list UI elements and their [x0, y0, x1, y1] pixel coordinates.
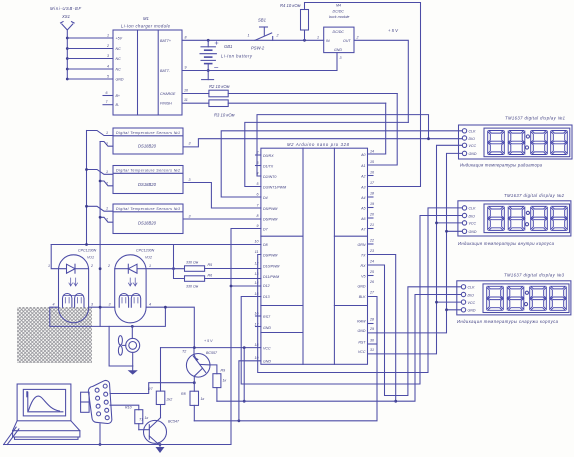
svg-text:2: 2: [256, 151, 259, 155]
svg-text:TM1637 digital display №2: TM1637 digital display №2: [504, 193, 565, 198]
wire VCC tap HG2: [437, 222, 463, 224]
pin numbers M1 left: [106, 34, 110, 105]
svg-text:1: 1: [106, 131, 108, 135]
M2 right pin numbers: [369, 150, 375, 353]
wire XS1 pin3 to M1: [67, 58, 113, 60]
wire RX to HG3 CLK: [368, 265, 462, 396]
wire DB9 to node X: [110, 383, 161, 394]
HG1 digit 2: [508, 131, 525, 155]
svg-text:3: 3: [189, 178, 191, 182]
wire bus1 tap sensor2 pin1: [87, 170, 114, 175]
ground bar battery: [202, 79, 214, 81]
svg-text:GND: GND: [358, 284, 366, 288]
svg-text:+ 5 V: + 5 V: [204, 339, 213, 343]
wire VCC tap HG3: [437, 301, 462, 303]
svg-text:CLK: CLK: [468, 286, 476, 290]
svg-text:A3: A3: [360, 185, 365, 189]
svg-text:31: 31: [370, 348, 374, 352]
svg-text:A2: A2: [360, 174, 365, 178]
svg-text:buck module: buck module: [329, 15, 349, 19]
wire +5V rail transistors: [161, 347, 262, 349]
svg-text:R6: R6: [208, 274, 213, 278]
svg-text:30: 30: [370, 339, 374, 343]
wire bus1 tap sensor3 pin1: [87, 206, 114, 211]
wire top rail R4 to A3: [305, 3, 421, 187]
svg-text:3: 3: [340, 56, 342, 60]
svg-text:A4: A4: [360, 196, 365, 200]
svg-text:11: 11: [184, 98, 188, 102]
HG2 pin circles: [462, 206, 466, 234]
svg-text:1: 1: [248, 34, 250, 38]
svg-text:3: 3: [257, 161, 259, 165]
svg-text:BC557: BC557: [206, 351, 218, 355]
switch SB1: [255, 27, 273, 40]
svg-text:5: 5: [257, 182, 259, 186]
svg-text:A0: A0: [360, 153, 365, 157]
svg-text:6: 6: [106, 91, 108, 95]
T2 labels: [182, 350, 218, 356]
svg-text:B+: B+: [116, 94, 121, 98]
pin numbers sensors: [105, 131, 191, 222]
svg-text:18: 18: [370, 192, 374, 196]
svg-text:OUT: OUT: [343, 39, 351, 43]
wire R5 to D10: [205, 268, 261, 270]
pin stubs M2 right: [368, 176, 374, 276]
svg-text:DIO: DIO: [469, 137, 476, 141]
svg-text:10: 10: [255, 240, 259, 244]
svg-text:Индикация температуры внутри к: Индикация температуры внутри корпуса: [458, 241, 555, 246]
node TX drop on R9 run: [394, 400, 397, 403]
svg-text:BATT-: BATT-: [160, 69, 171, 73]
svg-text:1: 1: [107, 34, 109, 38]
HG2 pin labels: [469, 207, 477, 234]
optocoupler VU2: [115, 255, 146, 323]
node VCC drop H4: [243, 400, 246, 403]
svg-text:GND: GND: [116, 78, 124, 82]
svg-text:29: 29: [369, 327, 374, 331]
node X junction: [193, 381, 196, 384]
wire XS1 pin5 to M1: [67, 78, 113, 80]
node VCC HG3: [435, 301, 438, 304]
svg-text:RX: RX: [361, 264, 367, 268]
svg-text:DC/DC: DC/DC: [333, 30, 345, 34]
node rail drop right: [172, 267, 175, 270]
wire XS1 bus: [66, 38, 68, 80]
wire T2 base to R9: [210, 365, 217, 374]
svg-text:VCC: VCC: [358, 350, 366, 354]
svg-text:28: 28: [369, 318, 374, 322]
svg-text:D0/RX: D0/RX: [263, 154, 274, 158]
svg-text:4: 4: [107, 65, 109, 69]
svg-text:SB1: SB1: [258, 18, 266, 23]
svg-text:GND: GND: [469, 152, 477, 156]
svg-text:2: 2: [90, 264, 93, 268]
transistor T1 BC547: [139, 415, 167, 446]
wire D3 plus5 run: [245, 122, 408, 186]
svg-text:GND: GND: [334, 48, 342, 52]
wire laptop cable: [4, 427, 19, 444]
svg-text:9: 9: [185, 66, 187, 70]
wire bottom run: [4, 444, 231, 446]
svg-text:T2: T2: [182, 350, 186, 354]
node R4 bottom junction: [303, 39, 306, 42]
HG3 colon: [524, 291, 528, 306]
display HG3 TM1637 box: [457, 281, 571, 315]
svg-text:D10/PWM: D10/PWM: [263, 265, 279, 269]
node GND left riser: [238, 419, 241, 422]
node bus2 sensor2: [99, 180, 102, 183]
svg-text:R5: R5: [208, 263, 213, 267]
svg-text:M1: M1: [143, 16, 149, 21]
svg-text:CLK: CLK: [469, 207, 477, 211]
HG2 digit 3: [531, 206, 548, 230]
laptop PC: [13, 384, 80, 439]
R9 labels: [221, 369, 227, 383]
wire H6 GND run to BLK: [194, 297, 377, 421]
svg-text:VCC: VCC: [468, 301, 476, 305]
svg-text:M2 Arduino nano pro 328: M2 Arduino nano pro 328: [287, 142, 350, 147]
node rail bus1: [85, 243, 88, 246]
svg-text:2: 2: [105, 142, 108, 146]
wire VU2 anode to rail drop: [146, 268, 184, 270]
svg-text:CPC1230N: CPC1230N: [136, 249, 155, 253]
wire R8 to GND run: [193, 405, 195, 420]
svg-text:DIO: DIO: [468, 293, 475, 297]
VU1 labels: [48, 249, 97, 307]
svg-text:1: 1: [48, 264, 50, 268]
svg-text:15: 15: [370, 160, 374, 164]
svg-text:R2 10 кОм: R2 10 кОм: [209, 84, 230, 89]
svg-text:V5: V5: [361, 274, 365, 278]
svg-text:Индикация температуры радиатор: Индикация температуры радиатора: [460, 163, 543, 168]
svg-text:NC: NC: [116, 47, 122, 51]
svg-text:1к: 1к: [223, 379, 227, 383]
svg-text:RST: RST: [358, 340, 366, 344]
svg-text:D11/PWM: D11/PWM: [263, 275, 279, 279]
svg-text:D13: D13: [263, 295, 270, 299]
svg-text:4: 4: [149, 303, 151, 307]
wire R9 run H4: [217, 400, 396, 402]
wire XS1 pin2 to M1: [67, 48, 113, 50]
resistor R5: [185, 266, 205, 272]
wire fan return: [109, 326, 133, 366]
svg-text:GRN: GRN: [358, 243, 366, 247]
svg-text:6: 6: [257, 193, 259, 197]
svg-text:TM1637 digital display №1: TM1637 digital display №1: [505, 116, 565, 121]
node DIO riser junction: [427, 137, 430, 140]
svg-text:16: 16: [370, 171, 374, 175]
svg-text:Li-Ion battery: Li-Ion battery: [221, 54, 253, 59]
svg-text:IN: IN: [326, 39, 330, 43]
svg-text:14: 14: [370, 150, 374, 154]
wire rail right drop to VU2 anode and R5 R6: [174, 245, 185, 279]
display HG2 TM1637 box: [458, 201, 571, 236]
M2 left pin numbers: [255, 151, 260, 361]
svg-text:1: 1: [106, 207, 108, 211]
svg-text:BC547: BC547: [168, 420, 180, 424]
wire VCC drop to H4: [243, 348, 245, 402]
wire T1 emitter down: [159, 446, 161, 448]
wire sensor bus 1: [86, 131, 88, 245]
node T2 emitter: [193, 346, 196, 349]
wire sensor3 data to D6: [183, 218, 261, 220]
svg-text:R4 10 кОм: R4 10 кОм: [280, 3, 301, 8]
wire bus2 tap sensor2 pin2: [100, 181, 113, 186]
HG2 colon: [525, 211, 529, 226]
svg-text:2: 2: [105, 181, 108, 185]
svg-text:NC: NC: [116, 68, 122, 72]
svg-text:11: 11: [255, 250, 259, 254]
svg-text:RST: RST: [263, 315, 271, 319]
svg-text:21: 21: [369, 223, 374, 227]
svg-text:1: 1: [149, 264, 151, 268]
wire D8 opto rail: [51, 244, 261, 246]
T1 labels: [139, 418, 180, 424]
svg-text:GND: GND: [358, 329, 366, 333]
wire display1 CLK run to D4: [221, 131, 462, 197]
resistor R8: [190, 391, 199, 405]
resistor R10: [110, 405, 143, 430]
connector XS1 Mini-USB-BF symbol: [61, 22, 75, 38]
HG1 digit 1: [488, 131, 505, 155]
sensor U3 labels: [116, 207, 180, 226]
M1 labels: [116, 16, 176, 107]
resistor R2: [182, 90, 397, 97]
sensor U2 DS18B20 box: [113, 166, 183, 194]
wire D13 to HG2 DIO nested: [241, 216, 462, 385]
svg-text:A1: A1: [360, 164, 365, 168]
wire riser display1 DIO upper run: [257, 115, 429, 176]
svg-text:9: 9: [257, 224, 259, 228]
pin stub RST right: [368, 343, 377, 345]
svg-text:Digital Temperature Sensors №1: Digital Temperature Sensors №1: [116, 131, 180, 135]
HG3 digit 4: [550, 286, 567, 310]
sensor U2 labels: [116, 168, 180, 187]
wire bus2 tap sensor3 pin2: [100, 217, 113, 222]
HG1 pin circles: [462, 129, 466, 156]
HG3 pin labels: [468, 286, 476, 313]
svg-text:DS18B20: DS18B20: [138, 182, 157, 187]
wire GND tap HG2: [447, 230, 463, 232]
svg-text:Li-Ion charger module: Li-Ion charger module: [121, 24, 171, 29]
wire D9 to HG2 CLK: [258, 208, 463, 373]
svg-text:RAW: RAW: [357, 320, 366, 324]
HG1 colon: [525, 135, 529, 149]
heatsink hatched block: [17, 307, 92, 363]
wire VU1 out left L: [50, 307, 166, 326]
HG1 digit 4: [551, 131, 568, 155]
svg-text:23: 23: [369, 249, 374, 253]
svg-text:+5V: +5V: [116, 37, 123, 41]
HG3 digit 2: [507, 286, 524, 310]
resistor R4: [301, 3, 309, 41]
node fan tap: [131, 325, 134, 328]
node battery minus junction: [207, 69, 210, 72]
R8 labels: [181, 392, 204, 401]
wire VU2 out right to T2 emitter: [146, 307, 194, 347]
display HG1 TM1637 box: [459, 125, 573, 159]
wire TX to HG3 DIO: [368, 255, 462, 402]
wire M4 OUT +5V: [354, 40, 408, 122]
svg-text:1: 1: [317, 36, 319, 40]
node VU2 out riser: [164, 306, 167, 309]
svg-text:25: 25: [369, 270, 374, 274]
wire GND left pin: [239, 361, 261, 421]
svg-text:CPC1230N: CPC1230N: [78, 249, 97, 253]
wire BATT- net: [182, 70, 337, 72]
svg-text:GB1: GB1: [224, 44, 232, 49]
svg-text:TM1637 digital display №3: TM1637 digital display №3: [504, 273, 565, 278]
HG3 digit 3: [530, 286, 547, 310]
M4 labels: [317, 4, 359, 61]
svg-text:20: 20: [369, 213, 374, 217]
wire GND tap HG3: [447, 309, 462, 311]
optocoupler VU1: [59, 255, 89, 323]
wire XS1 pin4 to M1: [67, 68, 113, 70]
wire R2 to A1 riser: [368, 94, 398, 166]
svg-text:D5/PWM: D5/PWM: [263, 207, 277, 211]
wire R3 to A0 riser: [368, 103, 386, 154]
svg-text:GND: GND: [263, 359, 271, 363]
svg-text:8: 8: [257, 214, 259, 218]
module M1 Li-Ion charger box: [113, 30, 182, 115]
svg-text:PSW-2: PSW-2: [251, 46, 265, 51]
svg-text:+ 5 V: + 5 V: [388, 28, 399, 33]
svg-text:R8: R8: [181, 392, 186, 396]
svg-text:A6: A6: [360, 217, 365, 221]
M2 left pin labels: [263, 154, 286, 363]
svg-text:19: 19: [370, 202, 374, 206]
wire XS1 pin1 to M1: [67, 37, 113, 39]
resistor R9: [213, 374, 221, 388]
ground fan: [128, 366, 138, 375]
resistor R7: [156, 383, 165, 415]
VU2 labels: [107, 249, 155, 307]
wire D7 serial down: [231, 229, 261, 445]
svg-text:DIO: DIO: [469, 214, 476, 218]
wire M4 GND pin3: [336, 53, 338, 71]
svg-text:VCC: VCC: [469, 222, 477, 226]
svg-text:D2/INT0: D2/INT0: [263, 175, 276, 179]
wire VU1 out to VU2 out: [89, 306, 115, 308]
pin stubs M2 left: [256, 155, 261, 327]
svg-text:DS18B20: DS18B20: [138, 144, 157, 149]
HG2 digit 1: [488, 206, 505, 230]
svg-text:4: 4: [53, 303, 55, 307]
connector XP1 DB9: [88, 380, 111, 423]
R7 labels: [148, 387, 172, 402]
svg-text:4: 4: [257, 172, 259, 176]
XS1 label: [50, 6, 81, 19]
svg-text:BLK: BLK: [359, 295, 366, 299]
svg-text:D6/PWM: D6/PWM: [263, 218, 277, 222]
HG2 digit 2: [508, 206, 525, 230]
R5 labels: [186, 261, 212, 268]
HG1 pin labels: [469, 130, 477, 157]
svg-text:VCC: VCC: [263, 346, 271, 350]
wire BATT+ net: [182, 39, 324, 41]
resistor R3: [182, 100, 386, 107]
svg-text:3: 3: [189, 142, 191, 146]
svg-text:DS18B20: DS18B20: [138, 221, 157, 226]
node battery plus junction: [207, 39, 210, 42]
node cathode bus: [99, 267, 102, 270]
wire sensor1 data to D2 and display1 DIO: [183, 139, 462, 147]
battery GB1: [200, 40, 218, 79]
svg-text:26: 26: [369, 280, 374, 284]
node T1 emitter run: [159, 443, 162, 446]
HG3 pin circles: [461, 285, 465, 312]
HG1 digit 3: [531, 131, 548, 155]
wire bus1 tap sensor1 pin1: [87, 131, 114, 136]
IC M2 Arduino nano pro 328 box: [261, 148, 368, 364]
svg-text:A5: A5: [360, 206, 365, 210]
node GND HG3: [445, 308, 448, 311]
svg-text:TX: TX: [361, 253, 366, 257]
module M4 DC/DC buck: [324, 27, 354, 52]
wire sensor2 data to D5: [183, 183, 261, 209]
R6 labels: [186, 274, 212, 289]
svg-text:2к2: 2к2: [166, 398, 173, 402]
svg-text:5: 5: [107, 75, 109, 79]
svg-text:GND: GND: [468, 309, 476, 313]
svg-text:D8: D8: [263, 243, 268, 247]
svg-text:GND: GND: [469, 230, 477, 234]
node out bus2: [99, 306, 102, 309]
pin numbers M1 right: [184, 36, 188, 103]
wire DB9 shell down: [99, 424, 101, 445]
sensor U1 labels: [116, 131, 180, 149]
svg-text:VCC: VCC: [469, 144, 477, 148]
svg-text:VU2: VU2: [145, 256, 152, 260]
wire R9 to H4: [216, 388, 218, 402]
M2 right pin labels: [357, 153, 366, 354]
wire R6 to D11: [205, 278, 261, 280]
wire node X chain: [161, 348, 195, 383]
svg-text:D4: D4: [263, 196, 268, 200]
svg-text:2: 2: [105, 218, 108, 222]
svg-text:10: 10: [184, 89, 188, 93]
node DB9 run: [99, 443, 102, 446]
svg-text:24: 24: [369, 260, 374, 264]
svg-text:FINISH: FINISH: [160, 102, 172, 106]
svg-text:2: 2: [106, 44, 109, 48]
svg-text:GND: GND: [263, 326, 271, 330]
svg-text:3: 3: [109, 303, 111, 307]
svg-text:D9/PWM: D9/PWM: [263, 253, 277, 257]
svg-text:8: 8: [185, 36, 187, 40]
wire VCC bus displays to VCC pin: [368, 145, 463, 354]
R10 labels: [125, 406, 148, 421]
svg-text:R10: R10: [125, 406, 132, 410]
sensor U1 DS18B20 box: [113, 128, 183, 154]
node XS1 bus junctions: [66, 37, 69, 81]
wire sensor bus 2: [99, 142, 101, 327]
wire GND bus displays to GND pin: [368, 153, 463, 333]
svg-text:BATT+: BATT+: [160, 39, 171, 43]
svg-text:D1/TX: D1/TX: [263, 164, 274, 168]
wire T2 collector down: [193, 376, 195, 391]
svg-text:22: 22: [369, 239, 374, 243]
HG3 digit 1: [487, 286, 504, 310]
resistor R6: [185, 276, 205, 282]
svg-text:R3 10 кОм: R3 10 кОм: [214, 113, 235, 118]
fan M3: [118, 326, 139, 366]
node bus2 sensor3: [99, 216, 102, 219]
wire rail left drop to VU1 anode: [51, 245, 66, 269]
node GND HG2: [445, 230, 448, 233]
node bus1 sensor3: [85, 205, 88, 208]
